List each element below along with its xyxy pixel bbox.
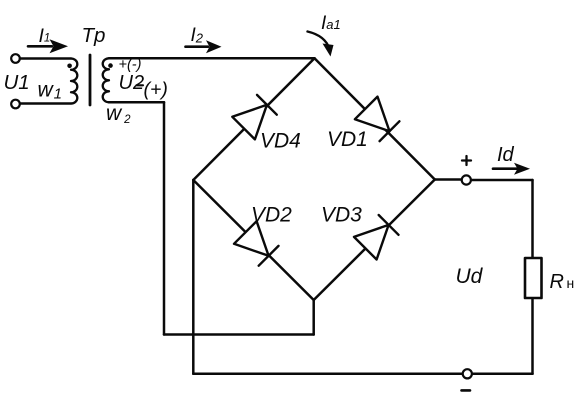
svg-text:U1: U1 bbox=[4, 71, 30, 94]
arrow I1 bbox=[28, 39, 68, 53]
terminal circle top-left input bbox=[11, 54, 20, 63]
resistor RH bbox=[525, 258, 542, 298]
terminal circle bottom-left input bbox=[11, 100, 20, 109]
svg-text:Ia1: Ia1 bbox=[321, 13, 341, 34]
transformer core bbox=[89, 55, 92, 105]
wire primary top bbox=[20, 57, 71, 60]
svg-text:Tp: Tp bbox=[82, 24, 106, 47]
svg-text:w2: w2 bbox=[106, 102, 131, 126]
svg-text:w1: w1 bbox=[38, 79, 63, 103]
diode VD4 bbox=[232, 95, 276, 139]
terminal circle - output bbox=[463, 369, 472, 378]
svg-text:(+): (+) bbox=[144, 79, 168, 101]
curved arrow Ia1 bbox=[308, 32, 334, 57]
label plus terminal bbox=[462, 156, 471, 165]
diode VD2 bbox=[234, 221, 279, 266]
wire right node to plus terminal bbox=[435, 178, 462, 181]
svg-text:I1: I1 bbox=[39, 25, 51, 47]
svg-text:VD4: VD4 bbox=[260, 130, 301, 153]
wire bottom rail right of minus terminal bbox=[472, 373, 532, 376]
wire bridge arm left-bottom bbox=[193, 180, 313, 300]
wire right vertical below resistor bbox=[531, 298, 534, 374]
svg-text:Id: Id bbox=[497, 144, 515, 166]
transformer Tp primary winding w1 bbox=[71, 59, 77, 104]
polarity dot primary bbox=[67, 64, 72, 69]
wire bridge arm bottom-right bbox=[314, 180, 435, 301]
wire left node down bbox=[192, 180, 195, 374]
svg-text:I2: I2 bbox=[191, 25, 204, 46]
svg-text:+(-): +(-) bbox=[119, 57, 142, 73]
svg-text:VD3: VD3 bbox=[321, 204, 362, 227]
svg-text:U2: U2 bbox=[119, 72, 145, 94]
svg-text:VD1: VD1 bbox=[327, 128, 368, 151]
transformer Tp secondary winding w2 bbox=[103, 58, 109, 102]
terminal circle + output bbox=[462, 175, 471, 184]
wire right vertical above resistor bbox=[531, 180, 534, 258]
polarity dot secondary bbox=[108, 63, 113, 68]
arrow I2 bbox=[186, 40, 222, 53]
wire left drop from secondary bottom bbox=[163, 102, 166, 334]
arrow Id bbox=[493, 163, 530, 175]
wire bridge arm left-top bbox=[193, 58, 314, 180]
svg-text:Rн: Rн bbox=[550, 271, 575, 293]
label minus terminal bbox=[462, 389, 471, 392]
label minus-plus bottom bbox=[137, 79, 168, 101]
wire plus terminal to right corner bbox=[471, 179, 532, 182]
svg-text:Ud: Ud bbox=[456, 265, 484, 288]
wire primary bottom bbox=[20, 102, 71, 105]
wire bridge arm top-right bbox=[315, 58, 435, 179]
wire bottom rail left of minus terminal bbox=[193, 373, 462, 376]
diode VD3 bbox=[354, 215, 399, 260]
svg-text:VD2: VD2 bbox=[251, 204, 292, 227]
wire secondary top rail to bridge top node bbox=[109, 57, 315, 60]
wire secondary bottom bbox=[109, 101, 164, 104]
wire bottom horizontal to bridge bottom bbox=[164, 333, 314, 336]
diode VD1 bbox=[355, 97, 400, 142]
wire bridge bottom stub bbox=[312, 300, 315, 335]
